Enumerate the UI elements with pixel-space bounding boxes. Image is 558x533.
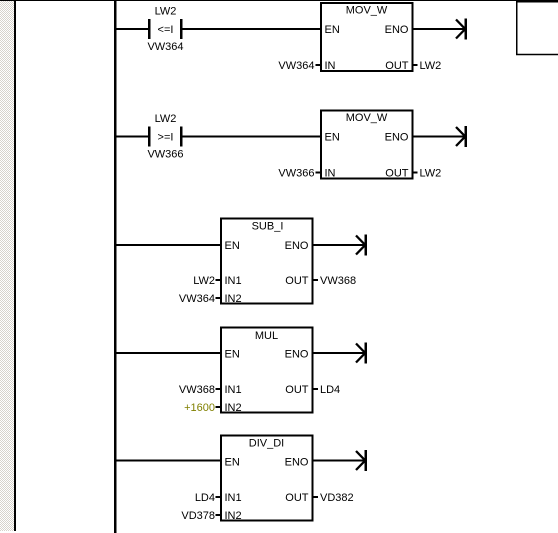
svg-text:EN: EN bbox=[325, 24, 340, 36]
pin tick OUT R2 bbox=[413, 172, 418, 174]
top border line bbox=[0, 0, 558, 1]
editor left border line bbox=[14, 0, 16, 531]
svg-text:IN1: IN1 bbox=[225, 492, 242, 504]
pin tick IN1 R4 bbox=[216, 388, 222, 390]
scrollbar dither strip bbox=[0, 1, 14, 531]
svg-text:VD378: VD378 bbox=[181, 510, 215, 522]
svg-text:IN: IN bbox=[325, 60, 336, 72]
wire ENO to arrow R2 bbox=[413, 136, 465, 138]
arrow output R3 bbox=[356, 235, 367, 256]
box MOV_W R1 bbox=[321, 3, 413, 71]
box MUL R4 bbox=[221, 328, 313, 413]
box MOV_W R2 bbox=[321, 111, 413, 179]
svg-text:ENO: ENO bbox=[385, 132, 409, 144]
wire contact to MOV_W box R1 bbox=[182, 28, 321, 30]
partial window box top right bbox=[517, 0, 558, 55]
svg-text:SUB_I: SUB_I bbox=[252, 221, 284, 233]
svg-text:DIV_DI: DIV_DI bbox=[249, 438, 284, 450]
svg-text:+1600: +1600 bbox=[184, 402, 215, 414]
wire rail to contact R1 bbox=[114, 28, 148, 30]
contact bar left R1 bbox=[148, 19, 151, 39]
svg-text:>=I: >=I bbox=[158, 132, 174, 144]
svg-text:<=I: <=I bbox=[158, 24, 174, 36]
box DIV_DI R5 bbox=[221, 436, 313, 521]
pin tick IN R1 bbox=[316, 64, 322, 66]
svg-text:ENO: ENO bbox=[285, 349, 309, 361]
svg-text:LW2: LW2 bbox=[193, 275, 215, 287]
svg-text:VW364: VW364 bbox=[179, 293, 215, 305]
svg-text:IN: IN bbox=[325, 168, 336, 180]
arrow output R1 bbox=[456, 19, 467, 40]
svg-text:ENO: ENO bbox=[285, 240, 309, 252]
svg-text:OUT: OUT bbox=[285, 492, 309, 504]
svg-text:IN1: IN1 bbox=[225, 275, 242, 287]
svg-text:VW368: VW368 bbox=[320, 275, 356, 287]
svg-text:EN: EN bbox=[325, 132, 340, 144]
svg-text:OUT: OUT bbox=[285, 384, 309, 396]
svg-text:OUT: OUT bbox=[385, 60, 409, 72]
svg-text:MOV_W: MOV_W bbox=[346, 5, 388, 17]
svg-text:IN1: IN1 bbox=[225, 384, 242, 396]
svg-text:VD382: VD382 bbox=[320, 492, 354, 504]
contact bar left R2 bbox=[148, 127, 151, 147]
svg-text:IN2: IN2 bbox=[225, 510, 242, 522]
contact bar right R2 bbox=[180, 127, 183, 147]
pin tick IN2 R4 bbox=[216, 406, 222, 408]
pin tick OUT R1 bbox=[413, 64, 418, 66]
arrow output R5 bbox=[356, 450, 367, 471]
wire rail to SUB_I box R3 bbox=[114, 244, 221, 246]
svg-text:EN: EN bbox=[225, 349, 240, 361]
svg-text:IN2: IN2 bbox=[225, 402, 242, 414]
svg-text:VW366: VW366 bbox=[147, 149, 183, 161]
pin tick IN2 R5 bbox=[216, 514, 222, 516]
box SUB_I R3 bbox=[221, 219, 313, 304]
svg-text:VW364: VW364 bbox=[278, 60, 314, 72]
svg-text:LW2: LW2 bbox=[420, 168, 442, 180]
wire ENO to arrow R4 bbox=[313, 352, 365, 354]
pin tick IN2 R3 bbox=[216, 297, 222, 299]
svg-text:IN2: IN2 bbox=[225, 293, 242, 305]
wire ENO to arrow R5 bbox=[313, 460, 365, 462]
svg-text:MOV_W: MOV_W bbox=[346, 112, 388, 124]
pin tick IN1 R3 bbox=[216, 279, 222, 281]
svg-text:VW368: VW368 bbox=[179, 384, 215, 396]
arrow output R2 bbox=[456, 126, 467, 147]
pin tick IN R2 bbox=[316, 172, 322, 174]
pin tick OUT R4 bbox=[313, 388, 318, 390]
partial window box top border bbox=[517, 0, 558, 3]
svg-text:LW2: LW2 bbox=[420, 60, 442, 72]
svg-text:ENO: ENO bbox=[385, 24, 409, 36]
svg-text:OUT: OUT bbox=[285, 275, 309, 287]
svg-text:VW366: VW366 bbox=[278, 168, 314, 180]
svg-text:VW364: VW364 bbox=[147, 41, 183, 53]
svg-text:OUT: OUT bbox=[385, 168, 409, 180]
contact bar right R1 bbox=[180, 19, 183, 39]
svg-text:EN: EN bbox=[225, 240, 240, 252]
svg-text:LD4: LD4 bbox=[320, 384, 340, 396]
wire rail to contact R2 bbox=[114, 136, 148, 138]
svg-text:LW2: LW2 bbox=[155, 6, 177, 18]
arrow output R4 bbox=[356, 343, 367, 364]
wire rail to MUL box R4 bbox=[114, 352, 221, 354]
left power rail bbox=[114, 0, 116, 533]
svg-text:MUL: MUL bbox=[255, 330, 278, 342]
pin tick OUT R3 bbox=[313, 279, 318, 281]
wire rail to DIV_DI box R5 bbox=[114, 460, 221, 462]
pin tick IN1 R5 bbox=[216, 496, 222, 498]
svg-text:LW2: LW2 bbox=[155, 113, 177, 125]
wire ENO to arrow R1 bbox=[413, 28, 465, 30]
svg-text:ENO: ENO bbox=[285, 457, 309, 469]
svg-text:LD4: LD4 bbox=[195, 492, 215, 504]
wire ENO to arrow R3 bbox=[313, 244, 365, 246]
svg-text:EN: EN bbox=[225, 457, 240, 469]
wire contact to MOV_W box R2 bbox=[182, 136, 321, 138]
pin tick OUT R5 bbox=[313, 496, 318, 498]
